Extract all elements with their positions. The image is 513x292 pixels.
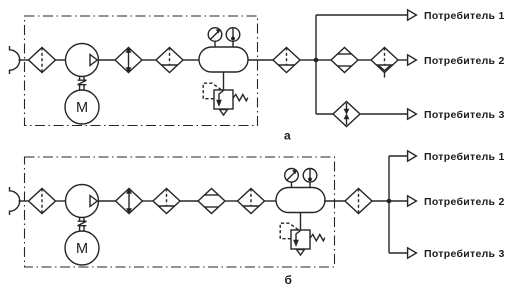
gauge stem left b <box>291 182 293 188</box>
wire FS2 to dryer b <box>180 200 198 202</box>
filter F4 <box>29 189 56 214</box>
thermometer <box>226 28 240 42</box>
air intake b <box>10 187 20 215</box>
motor M <box>65 90 99 124</box>
wire intake to filter F1 <box>19 59 29 61</box>
consumer 2 arrow b <box>408 196 417 206</box>
wire heater to consumer 3 <box>359 113 408 115</box>
gauge stem right <box>232 41 234 47</box>
wire receiver b to relief valve <box>300 213 302 231</box>
filter F1 <box>29 48 56 73</box>
svg-text:а: а <box>284 128 291 142</box>
filter-separator FS2 <box>153 189 180 214</box>
pressure relief valve <box>203 83 248 115</box>
filter-separator FS3 <box>238 189 265 214</box>
consumer 3 arrow b <box>408 248 417 258</box>
wire to consumer 1 b <box>389 155 408 157</box>
wire cooler b to separator <box>143 200 154 202</box>
filter-separator F2 <box>273 48 300 73</box>
wire receiver to filter F2 <box>248 59 273 61</box>
wire F3 to consumer 2 <box>398 59 408 61</box>
wire compressor outlet <box>99 59 116 61</box>
svg-text:б: б <box>285 273 292 287</box>
wire junction down to heater <box>316 113 334 115</box>
air dryer b <box>198 189 225 214</box>
pressure relief valve b <box>280 223 325 255</box>
consumer 3 arrow <box>408 109 417 119</box>
gauge stem left <box>214 41 216 47</box>
wire junction to dryer <box>316 59 331 61</box>
junction node a <box>314 58 319 63</box>
wire to consumer 2 b <box>389 200 408 202</box>
wire dryer to filter F3 <box>358 59 371 61</box>
gauge stem right b <box>309 182 311 188</box>
air dryer <box>331 48 358 73</box>
air intake <box>10 46 20 74</box>
receiver <box>199 47 248 72</box>
wire receiver b to filter F5 <box>324 200 345 202</box>
wire F2 to junction <box>300 59 316 61</box>
wire receiver to relief valve <box>223 72 225 90</box>
svg-text:Потребитель 1: Потребитель 1 <box>424 151 505 163</box>
receiver b <box>276 188 325 213</box>
svg-text:Потребитель 3: Потребитель 3 <box>424 109 505 121</box>
junction node b <box>387 199 392 204</box>
heater <box>333 102 360 127</box>
branch riser wire <box>315 15 317 114</box>
cooler <box>115 48 142 73</box>
motor M b <box>65 231 99 265</box>
wire dryer b to separator FS3 <box>225 200 238 202</box>
enclosure dash-dot box (compressor station a) <box>25 16 258 126</box>
pressure gauge <box>208 28 222 42</box>
filter-separator F3 with drain <box>371 48 398 73</box>
wire F5 to junction b <box>372 200 389 202</box>
svg-text:Потребитель 1: Потребитель 1 <box>424 10 505 22</box>
consumer 1 arrow b <box>408 151 417 161</box>
svg-text:Потребитель 2: Потребитель 2 <box>424 55 505 67</box>
compressor b <box>66 185 99 218</box>
consumer 2 arrow <box>408 55 417 65</box>
wire intake to filter F4 <box>19 200 29 202</box>
wire cooler to separator <box>142 59 156 61</box>
thermometer b <box>303 169 317 183</box>
shaft coupling b <box>78 218 87 232</box>
wire to consumer 3 b <box>389 252 408 254</box>
wire F1 to compressor <box>56 59 66 61</box>
svg-text:Потребитель 2: Потребитель 2 <box>424 196 505 208</box>
filter F5 <box>345 189 372 214</box>
pressure gauge b <box>285 169 299 183</box>
wire to consumer 1 <box>316 14 408 16</box>
wire compressor b outlet <box>99 200 116 202</box>
compressor <box>66 44 99 77</box>
wire F4 to compressor b <box>56 200 66 202</box>
filter-separator FS1 <box>156 48 183 73</box>
wire separator to receiver <box>183 59 199 61</box>
shaft coupling <box>78 77 87 91</box>
enclosure dash-dot box (compressor station b) <box>25 157 335 267</box>
branch riser wire b <box>388 156 390 253</box>
svg-text:Потребитель 3: Потребитель 3 <box>424 248 505 260</box>
cooler b <box>116 189 143 214</box>
consumer 1 arrow <box>408 10 417 20</box>
wire FS3 to receiver b <box>265 200 278 202</box>
